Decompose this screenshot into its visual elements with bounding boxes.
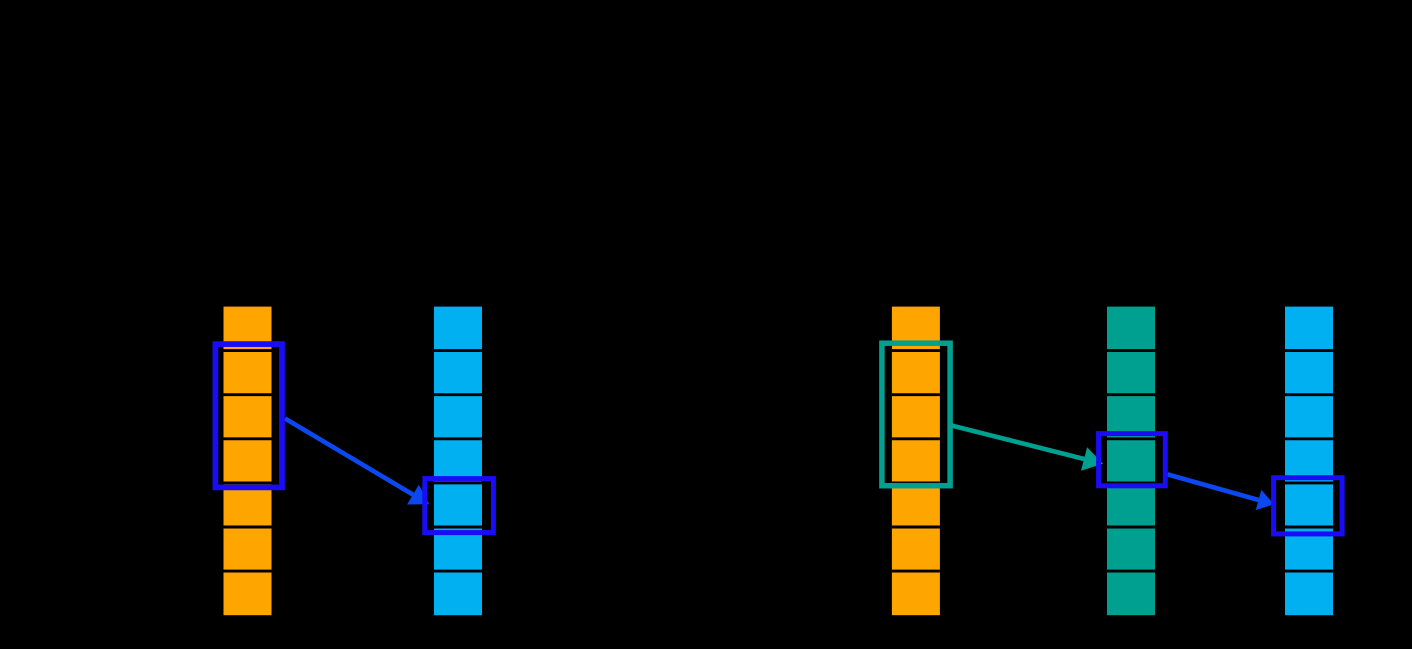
output cell rectangle blue on blue column (right diagram): [1274, 478, 1343, 534]
output cell rectangle on blue column (left diagram): [425, 479, 494, 533]
blue arrow from hidden cell to output cell (right diagram): [1168, 474, 1275, 510]
output column blue (right diagram): [1285, 307, 1333, 616]
input column orange (left diagram): [224, 307, 272, 616]
arrow from kernel window to output cell (left diagram): [285, 419, 429, 505]
output column blue (left diagram): [434, 307, 482, 616]
teal arrow from kernel window to hidden cell (right diagram): [952, 426, 1103, 471]
hidden cell rectangle blue on teal column (right diagram): [1099, 434, 1166, 486]
input column orange (right diagram): [892, 307, 940, 616]
kernel window rectangle teal on orange input (right diagram): [882, 343, 950, 486]
kernel window rectangle on orange input (left diagram): [215, 344, 282, 487]
hidden column teal (right diagram): [1107, 307, 1155, 616]
